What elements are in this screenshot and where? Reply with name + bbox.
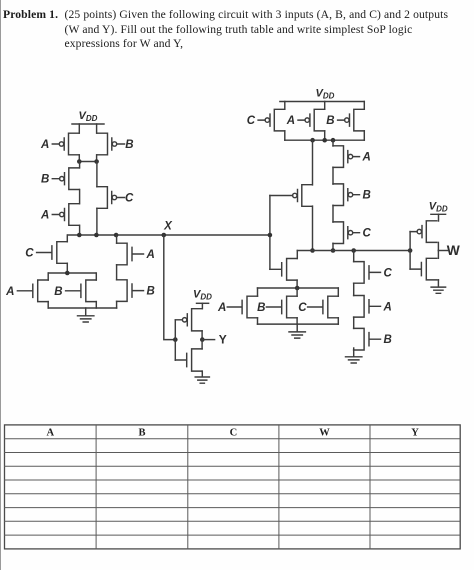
svg-text:W: W bbox=[447, 243, 461, 258]
wire VDD to Q27 source bbox=[438, 214, 440, 221]
svg-text:VDD: VDD bbox=[79, 110, 98, 123]
node X junction (Q9 branch) bbox=[114, 233, 119, 238]
svg-text:Y: Y bbox=[219, 333, 227, 347]
transistor Q24 (NMOS, gate C) bbox=[354, 262, 381, 284]
wire Q13/Q14/Q15 drains to bar bbox=[285, 131, 365, 140]
svg-text:A: A bbox=[362, 152, 371, 164]
transistor Q26 (NMOS, gate B) bbox=[354, 328, 381, 350]
wire node X rail bbox=[68, 234, 270, 236]
transistor Q21 (NMOS, gate A) bbox=[227, 296, 257, 318]
transistor Q17 (PMOS, gate A) bbox=[333, 146, 360, 168]
wire X feed vertical bbox=[269, 196, 271, 270]
wire Q28 source to ground bbox=[437, 279, 439, 281]
svg-text:VDD: VDD bbox=[193, 289, 212, 302]
wire Y-inverter input bar bbox=[174, 320, 176, 360]
wire parallel bar (Q7||Q8) bbox=[49, 272, 96, 274]
svg-text:B: B bbox=[384, 334, 392, 346]
wire W rail to Q20 drain bbox=[296, 251, 298, 259]
wire bottom bar (right parallel trio) bbox=[258, 323, 339, 325]
node bar junction (series chain) bbox=[331, 138, 336, 143]
transistor Q27 (PMOS, W inverter) bbox=[410, 221, 437, 243]
wire Q10 source to bottom bar bbox=[116, 301, 118, 308]
transistor Q13 (PMOS, gate C) bbox=[258, 109, 285, 131]
wire pull-up bar (right gate) bbox=[285, 139, 365, 141]
node Q20-parallel bar junction bbox=[295, 286, 300, 291]
node W rail junction (pull-down chain) bbox=[351, 248, 356, 253]
svg-text:X: X bbox=[163, 221, 173, 233]
svg-text:A: A bbox=[383, 301, 392, 313]
wire node W lead bbox=[438, 250, 447, 252]
svg-text:A: A bbox=[40, 210, 49, 222]
transistor Q5 (PMOS, gate C) bbox=[97, 187, 125, 209]
wire Q3 drain to Q4 source bbox=[79, 190, 81, 204]
ground (pull-down chain) bbox=[346, 350, 362, 363]
wire Q11 drain to node Y bbox=[201, 331, 203, 340]
VDD supply rail (Y inverter) bbox=[197, 302, 209, 304]
node Y-inverter input bbox=[173, 337, 178, 342]
VDD supply rail (W inverter) bbox=[431, 213, 446, 215]
problem statement line 1 bbox=[3, 8, 58, 21]
wire junction to Q3 source bbox=[79, 162, 81, 168]
transistor Q8 (NMOS, gate B) bbox=[66, 280, 97, 302]
transistor Q7 (NMOS, gate A) bbox=[17, 280, 48, 302]
wire bar to Q8 drain bbox=[95, 273, 97, 308]
wire Q27 drain to node W bbox=[437, 242, 439, 250]
svg-text:VDD: VDD bbox=[429, 200, 448, 213]
wire Q1/Q2 drains to junction bar bbox=[79, 155, 96, 162]
transistor Q1 (PMOS, gate A) bbox=[52, 133, 79, 155]
wire Q16 drain to node W rail bbox=[312, 206, 314, 250]
svg-text:B: B bbox=[138, 427, 145, 438]
svg-text:C: C bbox=[25, 248, 34, 260]
wire Q9 source to Q10 drain bbox=[116, 265, 118, 280]
wire Q19 drain to node W rail bbox=[332, 243, 334, 250]
node Y output bbox=[200, 337, 205, 342]
wire Q24 source to Q25 drain bbox=[353, 283, 355, 295]
VDD supply rail (right gate) bbox=[280, 101, 364, 103]
transistor Q4 (PMOS, gate A) bbox=[52, 204, 79, 226]
svg-text:A: A bbox=[5, 286, 14, 298]
transistor Q3 (PMOS, gate B) bbox=[52, 168, 79, 190]
wire node W rail bbox=[297, 250, 410, 252]
wire node X to Y-inverter input bbox=[164, 235, 176, 340]
wire Q18 drain to Q19 source bbox=[332, 205, 334, 222]
wire Q6 source to parallel bar bbox=[66, 263, 68, 273]
node bar junction (Q16 branch) bbox=[310, 138, 315, 143]
transistor Q25 (NMOS, gate A) bbox=[354, 296, 381, 318]
wire Q17 drain to Q18 source bbox=[332, 167, 334, 184]
wire bar to Q21 bbox=[257, 288, 259, 324]
svg-text:C: C bbox=[125, 193, 134, 205]
svg-text:C: C bbox=[363, 228, 372, 240]
svg-text:VDD: VDD bbox=[316, 88, 335, 101]
problem statement line 2 bbox=[65, 23, 413, 36]
svg-text:B: B bbox=[147, 286, 155, 298]
node W rail junction (W-inverter input) bbox=[408, 248, 413, 253]
wire Q4 drain to node X rail bbox=[79, 225, 81, 235]
node X junction (Q5 branch) bbox=[94, 233, 99, 238]
svg-text:A: A bbox=[146, 249, 155, 261]
transistor Q15 (PMOS, gate B) bbox=[338, 109, 365, 131]
node junction right bbox=[94, 159, 99, 164]
transistor Q19 (PMOS, gate C) bbox=[333, 222, 360, 244]
node bar junction (Q14 drain) bbox=[322, 138, 327, 143]
node Q6-parallel bar junction bbox=[65, 271, 70, 276]
svg-text:B: B bbox=[41, 174, 49, 186]
ground (Y inverter) bbox=[195, 371, 209, 383]
transistor Q20 (NMOS, gate X) bbox=[270, 259, 297, 281]
wire Q25 source to Q26 drain bbox=[353, 317, 355, 328]
wire bar to Q22 bbox=[296, 288, 298, 324]
wire Q26 source to ground bbox=[353, 348, 355, 350]
node X junction (Y-inverter feed) bbox=[162, 233, 167, 238]
node X junction (Q4 branch) bbox=[77, 233, 82, 238]
wire VDD to Q1/Q2 sources bbox=[79, 124, 96, 133]
svg-text:B: B bbox=[257, 302, 265, 314]
wire node Y to Q12 drain bbox=[201, 340, 203, 349]
svg-text:C: C bbox=[230, 427, 238, 438]
transistor Q9 (NMOS, gate A) bbox=[117, 243, 144, 265]
truth table row lines bbox=[5, 439, 461, 535]
transistor Q23 (NMOS, gate C) bbox=[308, 296, 339, 318]
wire bar to Q17 source bbox=[332, 140, 334, 146]
wire VDD to Q13/Q14/Q15 sources bbox=[285, 102, 365, 110]
transistor Q6 (NMOS, gate C) bbox=[37, 242, 68, 264]
transistor Q10 (NMOS, gate B) bbox=[117, 280, 144, 302]
svg-text:B: B bbox=[363, 190, 371, 202]
wire bar to Q7 drain bbox=[47, 273, 49, 308]
svg-text:B: B bbox=[326, 115, 334, 127]
svg-text:Y: Y bbox=[411, 427, 419, 438]
node X feed junction bbox=[268, 233, 273, 238]
VDD supply rail (left gate) bbox=[72, 123, 104, 125]
truth table column lines bbox=[96, 425, 370, 549]
wire W rail to Q24 drain bbox=[353, 251, 355, 262]
svg-text:A: A bbox=[47, 427, 55, 438]
wire Q20 source to parallel bar bbox=[296, 280, 298, 288]
transistor Q18 (PMOS, gate B) bbox=[333, 184, 360, 206]
wire X rail to Q6 drain bbox=[66, 235, 68, 242]
wire Q5 drain to node X rail bbox=[96, 208, 98, 235]
truth table outer border bbox=[5, 425, 461, 549]
node junction left bbox=[77, 159, 82, 164]
wire node W to Q28 drain bbox=[437, 251, 439, 259]
svg-text:A: A bbox=[40, 139, 49, 151]
svg-text:C: C bbox=[247, 115, 256, 127]
wire parallel bar (Q21||Q22||Q23) bbox=[258, 287, 339, 289]
wire junction bar bbox=[79, 161, 96, 163]
transistor Q12 (NMOS, Y inverter) bbox=[175, 349, 202, 371]
wire bar to Q23 bbox=[337, 288, 339, 324]
transistor Q2 (PMOS, gate B) bbox=[97, 133, 125, 155]
ground (right parallel trio) bbox=[289, 324, 305, 338]
wire bottom bar (left pull-down) bbox=[48, 307, 116, 309]
transistor Q14 (PMOS, gate A) bbox=[298, 109, 325, 131]
wire W-inverter input bar bbox=[409, 232, 411, 270]
svg-text:C: C bbox=[298, 302, 307, 314]
transistor Q28 (NMOS, W inverter) bbox=[410, 258, 437, 280]
transistor Q22 (NMOS, gate B) bbox=[266, 296, 297, 318]
wire node Y lead bbox=[202, 339, 214, 341]
wire VDD to Q11 source bbox=[201, 303, 203, 308]
svg-text:B: B bbox=[54, 286, 62, 298]
node W rail junction (Q16 branch) bbox=[310, 248, 315, 253]
transistor Q16 (PMOS, gate X) bbox=[270, 185, 312, 207]
svg-text:A: A bbox=[286, 115, 295, 127]
transistor Q11 (PMOS, Y inverter) bbox=[175, 309, 202, 331]
wire X rail to Q9 drain bbox=[116, 235, 118, 243]
wire Q12 source to ground bbox=[201, 370, 203, 372]
wire junction to Q5 source bbox=[96, 162, 98, 187]
svg-text:A: A bbox=[217, 302, 226, 314]
ground (W inverter) bbox=[431, 280, 446, 293]
node W rail junction (series chain) bbox=[331, 248, 336, 253]
page left edge scan line bbox=[0, 0, 1, 570]
svg-text:C: C bbox=[384, 267, 393, 279]
svg-text:W: W bbox=[319, 427, 330, 438]
ground (left gate) bbox=[78, 308, 94, 322]
wire bar to Q16 source bbox=[312, 140, 314, 185]
svg-text:B: B bbox=[125, 139, 133, 151]
problem statement line 3 bbox=[65, 37, 184, 50]
